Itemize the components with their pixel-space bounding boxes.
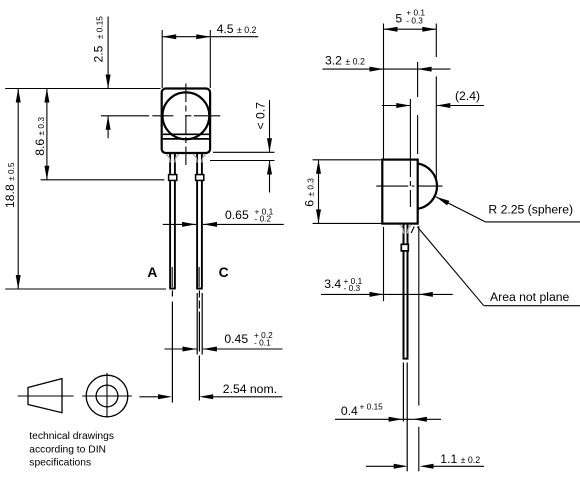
svg-text:technical drawings: technical drawings xyxy=(29,431,114,442)
svg-text:0.65: 0.65 xyxy=(225,208,249,222)
dimension 0.65 +0.1 -0.2 (lead width) xyxy=(163,206,284,227)
lead collar side xyxy=(401,244,408,251)
svg-text:2.5 ± 0.15: 2.5 ± 0.15 xyxy=(92,16,106,63)
leader Area not plane xyxy=(417,227,580,306)
svg-text:R 2.25 (sphere): R 2.25 (sphere) xyxy=(488,203,573,217)
svg-text:- 0.3: - 0.3 xyxy=(344,283,361,293)
svg-text:C: C xyxy=(219,265,229,280)
dimension 5 +0.1 -0.3 (body+dome depth) xyxy=(384,8,437,182)
svg-text:0.45: 0.45 xyxy=(224,332,248,346)
svg-text:< 0.7: < 0.7 xyxy=(254,102,268,130)
8.6 lower reference line xyxy=(41,179,165,181)
vertical centerline front xyxy=(185,84,187,169)
horizontal axis line side xyxy=(376,185,408,187)
svg-text:2.54 nom.: 2.54 nom. xyxy=(223,382,277,396)
dimension 2.5 +-0.15 (lens center height) xyxy=(92,16,150,138)
dimension 18.8 +-0.5 xyxy=(3,89,21,290)
svg-text:3.4: 3.4 xyxy=(324,277,341,291)
right lead collar xyxy=(196,175,204,181)
svg-text:5: 5 xyxy=(395,12,402,26)
lead tip lines side xyxy=(402,363,404,422)
svg-text:- 0.1: - 0.1 xyxy=(254,338,271,348)
flange line upper xyxy=(163,133,209,135)
dome (sphere segment) side view xyxy=(418,164,438,209)
svg-text:6 ± 0.3: 6 ± 0.3 xyxy=(302,178,316,207)
area not plane tick xyxy=(411,227,414,234)
symbol circles xyxy=(86,375,128,417)
18.8 lower reference line xyxy=(5,288,166,290)
leader R 2.25 (sphere) xyxy=(435,195,580,222)
dimension 3.2 +-0.2 (body depth) xyxy=(323,53,451,154)
dimension 8.6 +-0.3 xyxy=(33,89,50,180)
left lead centerline below xyxy=(171,291,173,403)
LED body side view xyxy=(382,160,417,224)
lens circle front view xyxy=(163,92,210,139)
vertical axis line side xyxy=(409,99,411,160)
svg-text:(2.4): (2.4) xyxy=(455,89,480,103)
right lead thin tip outline xyxy=(196,293,198,355)
svg-text:18.8 ± 0.5: 18.8 ± 0.5 xyxy=(3,162,17,208)
dimension 0.4 +0.15 (lead thickness) xyxy=(335,401,441,421)
dimension < 0.7 (flange) xyxy=(210,100,275,193)
frustum side view symbol xyxy=(28,379,62,413)
cathode lead (right) front xyxy=(196,154,203,289)
frustum centerline xyxy=(18,395,74,397)
horizontal centerline front xyxy=(152,115,173,117)
LED body front view xyxy=(162,89,210,154)
dimension 0.45 +0.2 -0.1 (tip width) xyxy=(165,330,283,351)
lead side view xyxy=(403,225,409,359)
svg-text:1.1 ± 0.2: 1.1 ± 0.2 xyxy=(440,452,480,466)
svg-text:- 0.2: - 0.2 xyxy=(255,213,272,223)
dimension 4.5 +-0.2 (body width) xyxy=(162,22,258,88)
dimension (2.4) xyxy=(382,89,484,108)
svg-text:4.5 ± 0.2: 4.5 ± 0.2 xyxy=(217,22,257,36)
svg-text:A: A xyxy=(147,265,157,280)
lead fillets front xyxy=(166,155,206,163)
dimension 3.4 +0.1 -0.3 xyxy=(321,226,453,471)
anode lead (left) front xyxy=(169,154,176,289)
dimension 2.54 nom. (lead spacing) xyxy=(139,382,282,399)
svg-text:3.2 ± 0.2: 3.2 ± 0.2 xyxy=(325,53,365,67)
svg-text:8.6 ± 0.3: 8.6 ± 0.3 xyxy=(33,117,47,156)
dimension 1.1 +-0.2 xyxy=(366,452,484,469)
dimension 6 +-0.3 (body height) xyxy=(302,160,381,224)
lead fillets side xyxy=(400,225,412,234)
svg-text:0.4: 0.4 xyxy=(341,404,358,418)
svg-text:+ 0.15: + 0.15 xyxy=(360,401,384,411)
right lead centerline below xyxy=(198,291,200,401)
left lead collar xyxy=(169,175,177,181)
svg-text:Area not plane: Area not plane xyxy=(490,290,570,304)
circle crosshair xyxy=(82,395,132,397)
body top reference line xyxy=(5,88,160,90)
svg-text:specifications: specifications xyxy=(29,458,91,469)
flange line lower xyxy=(163,138,209,140)
svg-text:according to DIN: according to DIN xyxy=(29,444,106,455)
svg-text:- 0.3: - 0.3 xyxy=(406,16,423,26)
